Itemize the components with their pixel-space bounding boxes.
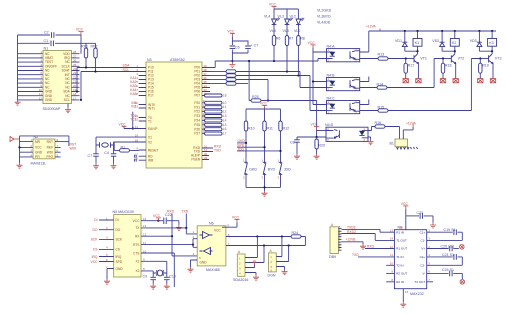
crystal Y1 — [96, 144, 114, 146]
svg-text:DI: DI — [116, 218, 119, 222]
wire RXD to R1OUT — [365, 248, 394, 250]
wire A line — [226, 236, 291, 238]
svg-text:SCK: SCK — [116, 238, 123, 242]
crystal Y2 — [153, 272, 167, 274]
wire key bottom rail — [246, 174, 281, 191]
wire MCU stubs RXD TXD ALE PSEN — [202, 148, 213, 160]
svg-text:R13: R13 — [378, 53, 385, 57]
wire opto B out — [360, 87, 377, 89]
wire key row 1 — [237, 142, 246, 144]
svg-text:SD2000AP: SD2000AP — [43, 107, 61, 111]
svg-text:RP1: RP1 — [81, 45, 88, 49]
wire RX to riser — [141, 235, 172, 237]
wire X2 branch — [141, 271, 153, 277]
svg-text:GND: GND — [200, 261, 208, 265]
optocoupler N4:A — [327, 45, 360, 63]
wire left bus N2 — [19, 136, 21, 163]
optocoupler N4:D mirrored — [325, 123, 368, 142]
power VCC MAX232 — [403, 206, 408, 209]
wire X1 branch — [141, 261, 167, 277]
resistor R19 base — [479, 59, 481, 64]
capacitor C24 line — [427, 272, 449, 274]
node base — [405, 57, 407, 59]
wire 12V rail — [369, 30, 496, 32]
wire N1 left pin comb — [18, 54, 44, 100]
svg-text:VCC: VCC — [214, 229, 221, 233]
pin numbers MAX232 right — [428, 229, 430, 283]
resistor R8 — [297, 26, 299, 36]
node TX join — [185, 227, 187, 229]
svg-text:12: 12 — [39, 96, 43, 100]
relay K2 — [454, 31, 456, 39]
svg-text:C1+: C1+ — [420, 230, 426, 234]
svg-text:SCL: SCL — [123, 68, 130, 72]
node base — [479, 57, 481, 59]
node N5 vcc — [157, 220, 159, 222]
svg-text:11: 11 — [390, 253, 393, 257]
svg-text:+ C7: + C7 — [251, 44, 259, 48]
wire crystal branch right — [113, 142, 115, 154]
svg-text:C2+: C2+ — [420, 255, 426, 259]
wire base — [442, 58, 452, 60]
svg-text:JDD: JDD — [238, 147, 245, 151]
capacitor C19 loop — [427, 231, 453, 233]
net labels P2 pins — [223, 94, 227, 136]
svg-text:VCC: VCC — [91, 260, 99, 264]
wire P01 riser to opto B — [300, 72, 327, 88]
diode VD2 — [441, 31, 443, 42]
svg-text:R24: R24 — [292, 231, 299, 235]
svg-text:R25: R25 — [252, 95, 259, 99]
capacitor C4 — [93, 154, 99, 156]
relay cell 2 — [432, 30, 464, 83]
svg-text:C21 S1: C21 S1 — [442, 253, 454, 257]
wire TXD riser — [186, 214, 197, 234]
svg-text:T1 OUT: T1 OUT — [396, 239, 407, 243]
svg-text:VCC: VCC — [232, 215, 240, 219]
resistor R7 — [286, 26, 288, 36]
power VCC keys — [262, 105, 267, 109]
capacitor C1 — [51, 41, 53, 47]
svg-text:C1: C1 — [44, 39, 49, 43]
svg-text:RTS: RTS — [133, 243, 139, 247]
svg-text:13: 13 — [390, 229, 394, 233]
power VCC N5 — [156, 218, 161, 221]
pin names N5 right — [133, 219, 141, 273]
wire opto B collector stub — [360, 77, 369, 82]
svg-text:+12VB: +12VB — [346, 238, 357, 242]
IC U N1 SD2000AP body — [43, 51, 72, 104]
svg-text:TXD: TXD — [352, 253, 359, 257]
relay K3 — [491, 31, 493, 39]
ground optoD emitter — [368, 137, 371, 140]
wire N2 left comb — [20, 142, 34, 157]
wire RTS to enable — [141, 239, 193, 248]
svg-text:24: 24 — [203, 112, 207, 116]
wire T2OUT stub — [427, 281, 433, 283]
wire XP1 pin4 — [245, 273, 256, 276]
svg-text:C20 | S1: C20 | S1 — [441, 245, 455, 249]
svg-text:R17: R17 — [408, 64, 415, 68]
LED VL2 — [296, 18, 304, 26]
IC U N3 AT89S52 body — [146, 62, 202, 168]
wire led top rail — [274, 9, 298, 19]
wire N6 enable stubs — [193, 239, 197, 248]
ground DB9 — [360, 244, 366, 249]
svg-text:KA5: KA5 — [130, 92, 136, 96]
svg-text:SCK: SCK — [91, 238, 99, 242]
wire base — [405, 58, 415, 60]
resistor R14 — [377, 86, 387, 89]
svg-text:X2: X2 — [148, 140, 152, 144]
svg-text:C24 S1: C24 S1 — [442, 268, 454, 272]
wire T pins tie — [132, 112, 134, 129]
buzzer B1 — [395, 139, 408, 147]
svg-text:R1 OUT: R1 OUT — [396, 247, 407, 251]
wire N6 vcc — [222, 223, 237, 228]
resistor R10 — [244, 121, 247, 131]
ground C22 — [176, 225, 182, 230]
svg-text:L5: L5 — [223, 123, 227, 127]
svg-text:RXD2: RXD2 — [347, 230, 356, 234]
node K2 rail — [454, 30, 456, 32]
wire opto C out — [360, 110, 378, 112]
wire XP2 pin2 to B — [276, 246, 288, 262]
svg-text:IRQ: IRQ — [116, 255, 122, 259]
relay K1 — [417, 31, 419, 39]
capacitor C10 — [164, 277, 170, 279]
diode VD3 — [478, 31, 480, 42]
wire DB9 to T1OUT — [343, 234, 394, 241]
svg-text:L0: L0 — [223, 101, 227, 105]
node LED1 join — [273, 60, 275, 62]
svg-text:L3: L3 — [223, 114, 227, 118]
svg-text:C1-: C1- — [420, 239, 425, 243]
power VCC N6 — [234, 219, 239, 222]
svg-text:DO: DO — [93, 228, 98, 232]
svg-text:R15: R15 — [378, 106, 385, 110]
svg-text:R10: R10 — [248, 127, 255, 131]
ground R20 — [314, 154, 320, 159]
node P03 riser join — [267, 99, 269, 101]
svg-text:23: 23 — [203, 108, 207, 112]
svg-text:VCC: VCC — [311, 122, 319, 126]
svg-text:29: 29 — [204, 156, 208, 160]
pin names N1 right — [61, 52, 70, 102]
svg-text:VL2: VL2 — [290, 15, 296, 19]
svg-text:C23: C23 — [417, 211, 424, 215]
node coil-collector — [416, 50, 418, 52]
wire SCL riser — [80, 72, 82, 100]
terminal X3a — [478, 79, 483, 83]
wire N5 left stubs — [99, 220, 114, 262]
svg-text:L2: L2 — [223, 110, 227, 114]
svg-text:VCC: VCC — [269, 2, 277, 6]
capacitor C2B — [230, 46, 236, 48]
ground C9 — [150, 284, 156, 289]
button S1 GKD — [244, 162, 247, 174]
wire RD WR stubs — [139, 156, 146, 160]
wire key top rail — [246, 109, 281, 121]
svg-text:IRQ: IRQ — [92, 255, 98, 259]
svg-text:R1 IN: R1 IN — [396, 230, 404, 234]
capacitor C21 loop — [427, 256, 453, 258]
pin names MAX232 left — [396, 230, 407, 284]
svg-text:RXD: RXD — [367, 245, 375, 249]
pin names MCU right — [191, 66, 201, 162]
svg-text:VCC: VCC — [227, 29, 235, 33]
node B1 — [263, 244, 265, 246]
wire opto C collector stub — [360, 100, 369, 105]
capacitor C9 — [150, 277, 156, 279]
svg-text:PFO: PFO — [46, 155, 53, 159]
svg-text:L4: L4 — [223, 118, 227, 122]
svg-text:R1: R1 — [121, 145, 126, 149]
IC U N6 MAX485 body — [197, 226, 226, 266]
node A1 — [256, 235, 258, 237]
resistor P07 series — [205, 94, 223, 97]
svg-text:EA/VP: EA/VP — [148, 127, 157, 131]
ground N6 — [188, 267, 194, 272]
net labels P1 pins — [130, 76, 136, 122]
svg-text:VCC: VCC — [119, 122, 127, 126]
IC U N2 MAX813L body — [33, 139, 55, 159]
wire opto A out — [360, 58, 378, 60]
capacitor C23 — [406, 215, 419, 217]
wire MCU left stubs P1 — [139, 68, 146, 96]
ground C23 — [430, 223, 436, 228]
wire N2 right stubs — [55, 142, 61, 157]
svg-text:R14: R14 — [377, 83, 384, 87]
node LED3 join — [297, 74, 299, 76]
wire MAX232 vcc riser — [405, 209, 407, 230]
node LED2 join — [286, 70, 288, 72]
svg-text:P27: P27 — [194, 132, 200, 136]
svg-text:P07: P07 — [194, 94, 200, 98]
svg-text:AT89S52: AT89S52 — [170, 58, 185, 62]
resistor R3 row P02 — [210, 75, 226, 77]
svg-text:CS: CS — [93, 248, 98, 252]
wire MAX232 nc stubs — [386, 265, 394, 282]
svg-text:28: 28 — [203, 130, 207, 134]
svg-text:+12VA: +12VA — [406, 121, 417, 125]
svg-text:VL2GKD: VL2GKD — [317, 9, 332, 13]
node K3 rail — [491, 30, 493, 32]
relay cell 3 — [470, 30, 502, 83]
buzzer comb — [397, 147, 418, 149]
power mark XP1-3 — [253, 261, 257, 265]
svg-text:P21: P21 — [194, 105, 200, 109]
svg-text:VCC: VCC — [153, 214, 161, 218]
svg-text:P23: P23 — [194, 114, 200, 118]
svg-text:L6: L6 — [223, 127, 227, 131]
resistor R17 base — [405, 59, 407, 64]
svg-text:VCC: VCC — [133, 219, 140, 223]
svg-text:VL2: VL2 — [294, 29, 300, 33]
svg-text:C7: C7 — [88, 154, 93, 158]
IC U N8 MAX232 body — [394, 230, 426, 289]
pin numbers DB9 — [339, 225, 341, 251]
wire base — [479, 58, 489, 60]
wire SDA riser — [76, 68, 78, 92]
svg-text:WDI: WDI — [70, 147, 76, 151]
LED VL4 — [272, 18, 280, 26]
ground MAX232 — [400, 302, 406, 307]
svg-text:R8: R8 — [300, 37, 305, 41]
svg-text:P17: P17 — [148, 94, 154, 98]
wire P02 riser to opto C — [310, 76, 327, 111]
svg-text:P25: P25 — [194, 123, 200, 127]
wire SCL line to MCU — [81, 71, 146, 73]
ground XP2 — [282, 270, 288, 275]
svg-text:VD1: VD1 — [395, 39, 402, 43]
node optoD — [316, 136, 318, 138]
svg-text:T2 OUT: T2 OUT — [415, 280, 426, 284]
power VCC leds — [271, 6, 276, 9]
IC U N5 MAX3100 body — [114, 215, 141, 277]
svg-text:C2: C2 — [44, 30, 49, 34]
resistor R2 row P01 — [210, 71, 226, 73]
svg-text:RXD: RXD — [167, 210, 175, 214]
resistor R25 buzzer line — [249, 100, 251, 102]
svg-text:T1 IN: T1 IN — [396, 255, 403, 259]
svg-text:14: 14 — [390, 237, 394, 241]
pin numbers MCU left — [135, 64, 139, 161]
svg-text:T1: T1 — [148, 119, 152, 123]
capacitor C22 — [164, 218, 166, 225]
svg-text:CTS: CTS — [133, 251, 139, 255]
pin numbers N1 left — [39, 50, 43, 100]
terminal X1a — [403, 79, 408, 83]
svg-text:WR: WR — [148, 159, 154, 163]
svg-text:P24: P24 — [194, 119, 200, 123]
svg-text:VT2: VT2 — [458, 56, 465, 60]
svg-text:R11: R11 — [267, 127, 273, 131]
svg-text:PSEN: PSEN — [191, 158, 200, 162]
wire X1 line — [96, 136, 146, 138]
wire XP1 pin1 to A — [245, 237, 257, 258]
wire crystal branch left — [95, 137, 97, 154]
ground N5 — [104, 279, 110, 284]
node RTS tie — [192, 244, 194, 246]
wire N5 gnd pin — [107, 269, 114, 280]
node SCL riser junction — [80, 99, 82, 101]
wire P06 stub — [202, 91, 210, 93]
svg-text:C22: C22 — [165, 213, 172, 217]
node key gnd — [263, 186, 265, 188]
wire buzzer to 12V — [403, 127, 413, 139]
power VCC optos — [310, 45, 315, 48]
svg-text:GND: GND — [45, 98, 53, 102]
node VD1 rail — [404, 30, 406, 32]
ground XP1 — [253, 275, 259, 280]
connector XS1 DB9 — [330, 227, 338, 254]
svg-text:INT1: INT1 — [148, 106, 155, 110]
svg-text:X1: X1 — [148, 135, 152, 139]
svg-text:VCC: VCC — [35, 146, 42, 150]
wire optoD anode — [317, 130, 326, 132]
svg-text:MAX485: MAX485 — [206, 268, 220, 272]
wire MCU right stubs P2 — [202, 103, 205, 134]
svg-text:N5 MAX3100: N5 MAX3100 — [113, 210, 134, 214]
svg-text:VL4JDD: VL4JDD — [317, 21, 331, 25]
node opto B anode — [312, 80, 314, 82]
svg-text:K3: K3 — [489, 41, 493, 45]
svg-text:TXD: TXD — [182, 210, 189, 214]
resistor R6 — [273, 26, 275, 36]
wire key row 2 — [237, 146, 265, 148]
svg-text:SPD: SPD — [116, 260, 123, 264]
svg-text:K1: K1 — [415, 41, 419, 45]
pin names MAX232 right — [415, 230, 426, 284]
svg-text:C19 S1: C19 S1 — [444, 228, 456, 232]
svg-text:VT3: VT3 — [495, 56, 502, 60]
ground N2 — [17, 163, 23, 168]
pin numbers MAX232 left — [390, 229, 394, 283]
power VCC decoupling — [230, 33, 235, 36]
node B2 — [288, 244, 290, 246]
svg-text:TXD: TXD — [214, 149, 221, 153]
svg-text:V+: V+ — [421, 247, 425, 251]
svg-text:VD2: VD2 — [432, 39, 439, 43]
resistor R1 reset — [114, 143, 119, 151]
svg-text:R2 OUT: R2 OUT — [396, 272, 407, 276]
transistor VT2 — [451, 54, 455, 64]
ground keys — [262, 191, 268, 196]
ground cap loop — [229, 62, 235, 67]
svg-text:SDA3016: SDA3016 — [233, 278, 248, 282]
wire optoD cathode node — [297, 136, 326, 138]
svg-text:P20: P20 — [194, 101, 200, 105]
svg-text:C4: C4 — [104, 151, 109, 155]
svg-text:VL4: VL4 — [270, 29, 276, 33]
svg-text:R2 IN: R2 IN — [396, 280, 404, 284]
cap marks RD WR — [135, 155, 137, 162]
svg-text:MR: MR — [35, 140, 41, 144]
terminal X2a — [440, 79, 445, 83]
wire gnd spur — [231, 60, 233, 62]
wire riser from top line — [248, 61, 250, 101]
wire MCU right stubs P0 — [202, 68, 210, 96]
wire cap loop — [232, 37, 248, 62]
ground crystal left — [93, 164, 99, 169]
wire DB9 to R1IN — [343, 229, 394, 232]
resistor network P2 rows — [205, 101, 223, 135]
svg-text:DI: DI — [94, 218, 97, 222]
power mark V+ — [460, 245, 465, 250]
wire CTS down — [141, 253, 174, 287]
resistor R16 — [375, 125, 385, 128]
svg-text:N3: N3 — [147, 58, 152, 62]
svg-text:15: 15 — [143, 217, 147, 221]
svg-text:IN1: IN1 — [131, 104, 136, 108]
svg-text:DGN: DGN — [268, 274, 276, 278]
terminal X3b — [490, 79, 495, 83]
svg-text:CS: CS — [116, 248, 120, 252]
svg-text:L7: L7 — [223, 132, 227, 136]
button S2 BYD — [263, 162, 266, 174]
node A2 — [281, 235, 283, 237]
wire second rail with C1 — [18, 42, 96, 44]
ground left bus — [15, 100, 21, 105]
wire key row 3 — [237, 150, 281, 152]
svg-text:R19: R19 — [482, 64, 489, 68]
wire DB9 gnd pin — [343, 242, 363, 244]
svg-text:BYD: BYD — [268, 167, 276, 171]
svg-text:T2 IN: T2 IN — [396, 263, 403, 267]
svg-text:26: 26 — [203, 121, 207, 125]
optocoupler N4:B — [327, 74, 360, 92]
